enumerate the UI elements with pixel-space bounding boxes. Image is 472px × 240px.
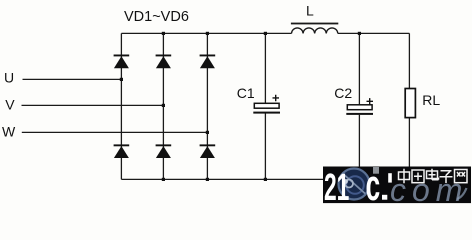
svg-text:com: com xyxy=(390,172,468,206)
svg-text:C1: C1 xyxy=(237,85,255,101)
svg-text:21: 21 xyxy=(324,166,349,206)
svg-text:L: L xyxy=(306,2,314,18)
svg-text:V: V xyxy=(5,97,15,113)
svg-text:C2: C2 xyxy=(334,85,352,101)
svg-text:W: W xyxy=(2,123,16,139)
svg-text:RL: RL xyxy=(422,92,440,108)
svg-text:c: c xyxy=(366,160,381,206)
svg-text:U: U xyxy=(4,70,14,86)
svg-text:VD1~VD6: VD1~VD6 xyxy=(124,9,189,25)
